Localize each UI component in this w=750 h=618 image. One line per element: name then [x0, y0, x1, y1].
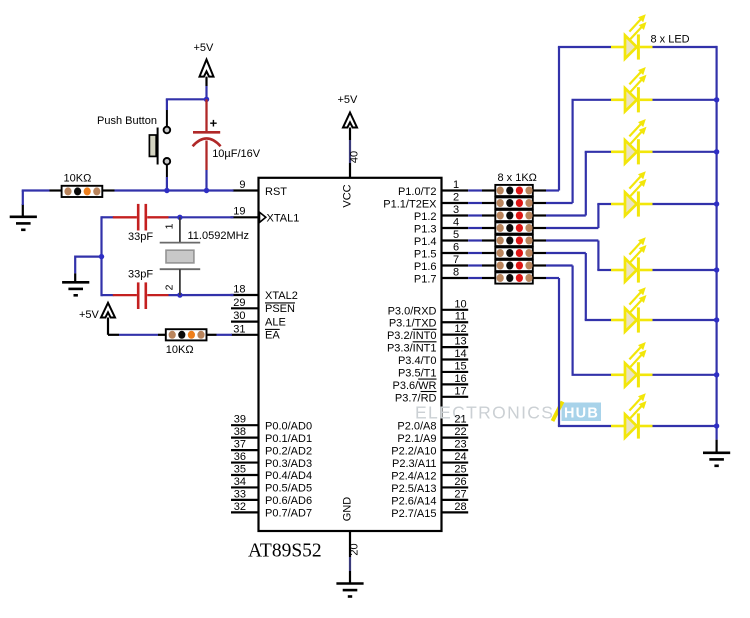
svg-text:HUB: HUB [564, 406, 599, 422]
svg-text:4: 4 [453, 217, 459, 229]
svg-text:P3.6/WR: P3.6/WR [392, 380, 436, 392]
resistor RN4 1K [495, 222, 533, 233]
LED D8 [611, 393, 653, 438]
pin 30 ALE stub [231, 310, 259, 322]
resistor R1 10K lead left [50, 189, 62, 191]
svg-text:ALE: ALE [265, 316, 286, 328]
wire pin 6 to resistor RN6 [468, 252, 482, 254]
svg-text:5: 5 [453, 229, 459, 241]
pin 14 P3.4/T0 stub [442, 348, 469, 360]
power +5V symbol RST top [194, 42, 215, 77]
svg-text:P3.0/RXD: P3.0/RXD [388, 305, 437, 317]
wire RN1 to LED D1 [546, 47, 611, 191]
svg-text:2: 2 [453, 192, 459, 204]
wire R2 to IC pin 31 [217, 334, 233, 336]
svg-text:P3.2/INT0: P3.2/INT0 [387, 330, 437, 342]
resistor R2 lead right [207, 334, 217, 336]
pin 29 PSEN stub [231, 297, 259, 309]
pin 28 P2.7/A15 stub [442, 501, 469, 513]
LED D5 [611, 237, 653, 282]
pin 35 P0.4/AD4 stub [231, 464, 259, 476]
pin 5 P1.4 stub [442, 229, 469, 241]
svg-text:26: 26 [454, 476, 466, 488]
svg-text:P3.3/INT1: P3.3/INT1 [387, 343, 437, 355]
pin 10 P3.0/RXD stub [442, 298, 469, 310]
svg-text:P1.3: P1.3 [414, 224, 437, 236]
pin 7 P1.6 stub [442, 254, 469, 266]
wire pin 8 to resistor RN8 [468, 277, 482, 279]
wire RN2 to LED D2 [546, 100, 611, 203]
svg-text:10µF/16V: 10µF/16V [212, 148, 261, 160]
ground symbol LED bus [703, 453, 730, 466]
svg-text:8: 8 [453, 267, 459, 279]
ground symbol IC GND [336, 584, 363, 597]
resistor RN1 lead right [533, 189, 546, 191]
wire pin 3 to resistor RN3 [468, 214, 482, 216]
pin 16 P3.6/WR stub [442, 373, 469, 385]
pin 6 P1.5 stub [442, 242, 469, 254]
svg-text:29: 29 [233, 297, 245, 309]
wire LED D8 cathode to bus [653, 425, 717, 427]
wire VCC pin 40 vertical [349, 128, 351, 179]
wire crystal left vertical [100, 216, 102, 296]
resistor RN3 1K [495, 210, 533, 221]
resistor RN2 lead right [533, 202, 546, 204]
svg-text:36: 36 [234, 451, 246, 463]
LED D1 [611, 14, 653, 59]
svg-text:10: 10 [454, 298, 466, 310]
svg-text:PSEN: PSEN [265, 303, 295, 315]
ground symbol far-left [22, 204, 24, 216]
resistor RN8 1K [495, 272, 533, 283]
svg-text:37: 37 [234, 439, 246, 451]
svg-text:7: 7 [453, 254, 459, 266]
resistor R2 lead left [158, 334, 166, 336]
svg-text:25: 25 [454, 464, 466, 476]
svg-text:28: 28 [454, 501, 466, 513]
junction bus row 7 [714, 372, 719, 377]
resistor RN1 1K lead left [482, 189, 495, 191]
svg-text:P2.6/A14: P2.6/A14 [391, 495, 436, 507]
svg-text:P3.7/RD: P3.7/RD [395, 392, 437, 404]
wire RN7 to LED D7 [546, 266, 611, 375]
junction bus row 3 [714, 149, 719, 154]
capacitor C3 10uF/16V electrolytic [193, 116, 221, 171]
svg-text:P2.1/A9: P2.1/A9 [397, 433, 436, 445]
wire LED D1 cathode to bus [653, 46, 717, 48]
svg-text:10KΩ: 10KΩ [166, 344, 194, 356]
wire LED D4 cathode to bus [653, 203, 717, 205]
svg-text:GND: GND [342, 497, 354, 522]
wire RN3 to LED D3 [546, 152, 611, 216]
svg-text:20: 20 [349, 543, 361, 555]
wire RN5 to LED D5 [546, 241, 611, 271]
svg-text:2: 2 [164, 284, 176, 290]
svg-text:21: 21 [454, 414, 466, 426]
resistor R1 lead right [102, 189, 114, 191]
svg-text:11: 11 [455, 311, 466, 323]
svg-text:P1.2: P1.2 [414, 211, 437, 223]
svg-text:AT89S52: AT89S52 [248, 541, 322, 562]
pin 22 P2.1/A9 stub [442, 426, 469, 438]
svg-text:12: 12 [454, 323, 466, 335]
wire +5V to resistor R2 [108, 318, 158, 335]
power +5V symbol EA [79, 303, 115, 321]
resistor RN5 1K [495, 235, 533, 246]
wire LED D7 cathode to bus [653, 374, 717, 376]
wire RST net to IC pin 9 [115, 189, 234, 191]
wire pin 5 to resistor RN5 [468, 239, 482, 241]
svg-text:1: 1 [453, 179, 459, 191]
resistor R1 10K RST pullup [62, 186, 103, 197]
resistor RN3 1K lead left [482, 214, 495, 216]
pin 31 EA stub [231, 323, 259, 335]
pin 33 P0.6/AD6 stub [231, 488, 259, 500]
wire node to capacitor C3 plus [205, 99, 207, 131]
svg-text:P0.4/AD4: P0.4/AD4 [265, 470, 312, 482]
pin 8 P1.7 stub [442, 267, 469, 279]
pin 37 P0.2/AD2 stub [231, 439, 259, 451]
capacitor C1 33pF top [102, 204, 169, 231]
pin label EA with overline [265, 329, 280, 341]
svg-text:6: 6 [453, 242, 459, 254]
wire cathode bus vertical [715, 46, 717, 440]
pin label P3.7/RD [395, 392, 437, 405]
svg-text:17: 17 [454, 385, 466, 397]
svg-text:EA: EA [265, 330, 280, 342]
svg-text:P2.2/A10: P2.2/A10 [391, 446, 436, 458]
LED D7 [611, 342, 653, 387]
wire LED D2 cathode to bus [653, 99, 717, 101]
pin 21 P2.0/A8 stub [442, 414, 469, 426]
pin 3 P1.2 stub [442, 204, 469, 216]
pin 34 P0.5/AD5 stub [231, 476, 259, 488]
svg-text:18: 18 [233, 284, 245, 296]
svg-text:P0.1/AD1: P0.1/AD1 [265, 433, 312, 445]
pin 9 RST stub [233, 179, 259, 191]
svg-text:P0.3/AD3: P0.3/AD3 [265, 458, 312, 470]
crystal Y1 11.0592MHz [160, 217, 201, 295]
wire RN8 to LED D8 [546, 278, 611, 426]
svg-text:VCC: VCC [342, 184, 354, 207]
svg-text:40: 40 [349, 151, 361, 163]
svg-text:P2.3/A11: P2.3/A11 [392, 458, 436, 470]
wire pin 1 to resistor RN1 [468, 189, 482, 191]
wire C1 to XTAL1 node [169, 216, 234, 218]
svg-text:+5V: +5V [338, 94, 359, 106]
wire GND pin 20 vertical [349, 531, 351, 583]
svg-text:P3.1/TXD: P3.1/TXD [389, 318, 437, 330]
svg-text:+: + [210, 116, 218, 131]
pin 23 P2.2/A10 stub [442, 439, 469, 451]
pin 1 P1.0/T2 stub [442, 179, 469, 191]
svg-text:1: 1 [164, 223, 176, 229]
wire branch to middle ground [75, 256, 101, 282]
resistor RN3 lead right [533, 214, 546, 216]
junction bus row 6 [714, 317, 719, 322]
pin 39 P0.0/AD0 stub [231, 414, 259, 426]
svg-text:P1.1/T2EX: P1.1/T2EX [383, 199, 437, 211]
resistor RN4 lead right [533, 227, 546, 229]
svg-text:P1.4: P1.4 [414, 236, 437, 248]
resistor RN7 1K lead left [482, 264, 495, 266]
ground symbol left RST [10, 217, 37, 230]
capacitor C2 33pF bottom [102, 282, 169, 309]
svg-text:8 x LED: 8 x LED [651, 34, 690, 46]
pin 24 P2.3/A11 stub [442, 451, 469, 463]
pin 25 P2.4/A12 stub [442, 464, 469, 476]
wire pin 2 to resistor RN2 [468, 202, 482, 204]
svg-text:11.0592MHz: 11.0592MHz [188, 230, 250, 242]
svg-text:38: 38 [234, 426, 246, 438]
resistor RN7 1K [495, 260, 533, 271]
svg-text:RST: RST [265, 186, 287, 198]
svg-text:P0.5/AD5: P0.5/AD5 [265, 483, 312, 495]
resistor RN2 1K [495, 197, 533, 208]
ground symbol crystal [62, 282, 89, 295]
svg-text:35: 35 [234, 464, 246, 476]
svg-text:ELECTRONICS: ELECTRONICS [415, 403, 554, 423]
svg-text:33pF: 33pF [128, 269, 153, 281]
wire RST net left [22, 191, 50, 206]
pin label P3.6/WR [392, 379, 436, 392]
resistor RN8 lead right [533, 277, 546, 279]
svg-text:P2.0/A8: P2.0/A8 [397, 421, 436, 433]
svg-text:23: 23 [454, 439, 466, 451]
svg-text:22: 22 [454, 426, 466, 438]
op IC U1 AT89S52 body [259, 178, 442, 531]
wire RN6 to LED D6 [546, 253, 611, 320]
pin 38 P0.1/AD1 stub [231, 426, 259, 438]
svg-text:P3.5/T1: P3.5/T1 [398, 367, 437, 379]
pin label P3.3/INT1 [387, 342, 437, 355]
watermark ELECTRONICS HUB logo [415, 402, 601, 423]
resistor R2 10K EA pullup [166, 329, 207, 340]
pin label PSEN with overline [265, 303, 295, 315]
junction XTAL1 node [177, 215, 182, 220]
svg-text:P0.6/AD6: P0.6/AD6 [265, 495, 312, 507]
svg-text:14: 14 [454, 348, 466, 360]
resistor RN6 1K [495, 247, 533, 258]
svg-text:9: 9 [239, 179, 245, 191]
pin 32 P0.7/AD7 stub [231, 501, 259, 513]
svg-text:P0.2/AD2: P0.2/AD2 [265, 445, 312, 457]
pin label P3.2/INT0 [387, 329, 437, 342]
resistor RN5 lead right [533, 239, 546, 241]
pin 4 P1.3 stub [442, 217, 469, 229]
pin 27 P2.6/A14 stub [442, 488, 469, 500]
wire bus to ground [715, 440, 717, 453]
svg-text:39: 39 [234, 414, 246, 426]
svg-text:P3.4/T0: P3.4/T0 [398, 355, 437, 367]
svg-text:19: 19 [233, 206, 245, 218]
junction bus row 5 [714, 267, 719, 272]
junction push button / RST line [164, 188, 169, 193]
svg-text:XTAL1: XTAL1 [267, 213, 300, 225]
svg-text:33pF: 33pF [128, 231, 153, 243]
wire pin 4 to resistor RN4 [468, 227, 482, 229]
resistor RN6 1K lead left [482, 252, 495, 254]
wire push button top to +5V node [166, 99, 207, 110]
junction XTAL2 node [177, 292, 182, 297]
resistor RN4 1K lead left [482, 227, 495, 229]
svg-text:P2.7/A15: P2.7/A15 [391, 508, 436, 520]
svg-text:24: 24 [454, 451, 466, 463]
resistor RN2 1K lead left [482, 202, 495, 204]
resistor RN6 lead right [533, 252, 546, 254]
LED D6 [611, 287, 653, 332]
svg-text:33: 33 [234, 488, 246, 500]
resistor RN5 1K lead left [482, 239, 495, 241]
resistor RN8 1K lead left [482, 277, 495, 279]
wire LED D5 cathode to bus [653, 269, 717, 271]
svg-text:+5V: +5V [194, 42, 215, 54]
LED D2 [611, 67, 653, 112]
svg-text:16: 16 [454, 373, 466, 385]
LED D4 [611, 171, 653, 216]
power +5V symbol VCC [338, 94, 359, 128]
pin 2 P1.1/T2EX stub [442, 192, 469, 204]
resistor RN1 1K [495, 185, 533, 196]
svg-text:+5V: +5V [79, 309, 100, 321]
pin 18 XTAL2 stub [231, 284, 259, 296]
wire LED D3 cathode to bus [653, 151, 717, 153]
junction +5V / button / capacitor [204, 97, 209, 102]
svg-text:15: 15 [454, 360, 466, 372]
junction capacitor / RST line [204, 188, 209, 193]
svg-text:3: 3 [453, 204, 459, 216]
wire pin 7 to resistor RN7 [468, 264, 482, 266]
resistor RN7 lead right [533, 264, 546, 266]
wire +5V arrow to node [205, 77, 207, 100]
pin 15 P3.5/T1 stub [442, 360, 469, 372]
junction bus row 8 [714, 423, 719, 428]
pin 17 P3.7/RD stub [442, 385, 469, 397]
wire capacitor C3 to RST net [205, 170, 207, 191]
svg-text:P2.4/A12: P2.4/A12 [391, 471, 436, 483]
svg-text:27: 27 [454, 488, 466, 500]
svg-text:32: 32 [234, 501, 246, 513]
svg-text:XTAL2: XTAL2 [265, 290, 298, 302]
svg-text:13: 13 [454, 336, 466, 348]
pin 36 P0.3/AD3 stub [231, 451, 259, 463]
svg-text:P1.5: P1.5 [414, 249, 437, 261]
svg-text:P1.7: P1.7 [414, 274, 437, 286]
svg-text:30: 30 [233, 310, 245, 322]
wire RN4 to LED D4 [546, 204, 611, 228]
svg-text:P0.7/AD7: P0.7/AD7 [265, 508, 312, 520]
svg-text:P0.0/AD0: P0.0/AD0 [265, 420, 312, 432]
svg-text:31: 31 [233, 323, 245, 335]
svg-text:Push Button: Push Button [97, 115, 157, 127]
junction bus row 2 [714, 97, 719, 102]
svg-text:34: 34 [234, 476, 246, 488]
svg-text:10KΩ: 10KΩ [64, 173, 92, 185]
pin 13 P3.3/INT1 stub [442, 336, 469, 348]
pin 19 XTAL1 stub with arrowhead [231, 206, 266, 223]
wire LED D6 cathode to bus [653, 319, 717, 321]
wire C2 to XTAL2 node [169, 294, 234, 296]
wire push button bottom to RST net [166, 177, 168, 191]
svg-text:P1.6: P1.6 [414, 261, 437, 273]
junction crystal ground branch [99, 254, 104, 259]
pin 11 P3.1/TXD stub [442, 311, 469, 323]
LED D3 [611, 119, 653, 164]
svg-text:8 x 1KΩ: 8 x 1KΩ [498, 172, 537, 184]
pin 26 P2.5/A13 stub [442, 476, 469, 488]
svg-text:P1.0/T2: P1.0/T2 [398, 186, 437, 198]
push button S1 [149, 110, 170, 177]
pin 12 P3.2/INT0 stub [442, 323, 469, 335]
junction bus row 4 [714, 201, 719, 206]
svg-text:P2.5/A13: P2.5/A13 [391, 483, 436, 495]
